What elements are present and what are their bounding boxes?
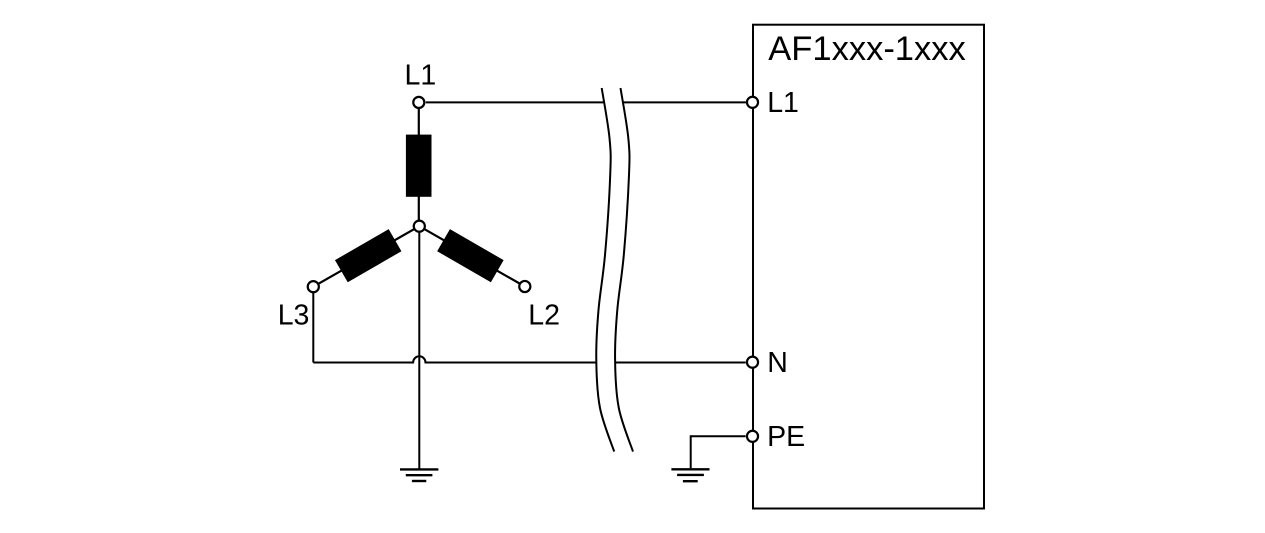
svg-text:L3: L3 xyxy=(278,299,310,331)
ground (PE) xyxy=(671,469,709,481)
svg-text:N: N xyxy=(767,347,788,379)
svg-text:PE: PE xyxy=(767,421,805,453)
node star point xyxy=(414,221,425,232)
node L3 terminal of source xyxy=(308,281,319,292)
node L1 terminal of source xyxy=(413,97,424,108)
winding W3 (L3 phase) xyxy=(335,229,401,282)
cable break right curve xyxy=(615,88,633,452)
node L2 terminal of source xyxy=(519,281,530,292)
wire PE drop to earth xyxy=(690,435,692,468)
node N terminal of device xyxy=(747,357,758,368)
wire L3 drop xyxy=(312,292,314,363)
wire star L1 winding to center node xyxy=(418,192,420,222)
node L1 terminal of device xyxy=(747,97,758,108)
wire PE horizontal xyxy=(691,435,746,437)
wire L1 phase horizontal xyxy=(426,101,746,103)
wire star L2 diagonal xyxy=(419,226,525,286)
wire N horizontal with hop over centre wire xyxy=(313,356,745,362)
cable break left curve xyxy=(596,88,614,452)
winding W1 (L1 phase) xyxy=(406,135,432,197)
ground (star point) xyxy=(400,469,438,481)
wire star L1 vertical (terminal to winding) xyxy=(418,109,420,141)
svg-text:L1: L1 xyxy=(405,60,437,92)
svg-text:L1: L1 xyxy=(767,87,799,119)
node PE terminal of device xyxy=(747,431,758,442)
device box AF1xxx-1xxx xyxy=(753,25,984,509)
cable break symbol (white band) xyxy=(596,88,633,452)
wire star point to earth xyxy=(418,231,420,469)
winding W2 (L2 phase) xyxy=(437,229,503,282)
svg-text:L2: L2 xyxy=(528,299,560,331)
wire star L3 diagonal xyxy=(313,226,419,287)
svg-text:AF1xxx-1xxx: AF1xxx-1xxx xyxy=(768,30,965,68)
